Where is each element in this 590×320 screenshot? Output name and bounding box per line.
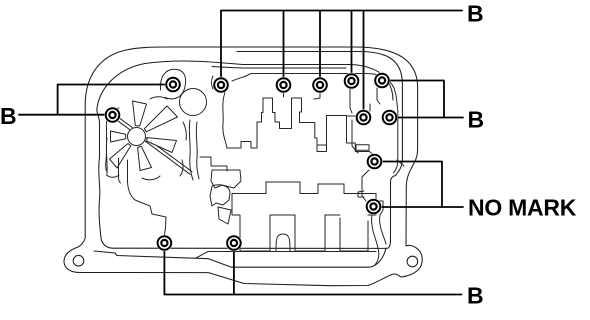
stub below bolt7	[377, 88, 380, 104]
middle band bottom meander	[232, 182, 383, 215]
fan blade W	[111, 131, 126, 142]
castle upper outline	[227, 98, 374, 155]
bolt b2	[165, 76, 181, 92]
below bolt11 wavy 2	[380, 215, 386, 244]
bolt3 pocket arc	[212, 76, 214, 89]
link bolt8 to wall	[369, 104, 371, 111]
castle small hanging box	[317, 145, 369, 152]
fan blade N	[133, 101, 147, 126]
bolt b12	[156, 235, 172, 251]
leader bottom B	[164, 243, 461, 295]
pan outer outline	[64, 47, 422, 286]
bottom-left ear hole	[73, 255, 84, 266]
bolt b13	[226, 235, 242, 251]
bolt b11	[365, 198, 381, 214]
pan inner bottom line	[94, 248, 386, 267]
big circle	[180, 89, 207, 116]
staircase to bolt12	[128, 182, 167, 235]
bolts	[104, 72, 397, 251]
leader top B	[221, 11, 462, 118]
bolt b6	[343, 73, 359, 89]
lower teeth bottom line	[196, 252, 376, 259]
fan blade NE	[144, 106, 177, 132]
leader NO MARK	[374, 162, 464, 208]
stub below bolt6	[350, 88, 352, 113]
lever rod	[112, 114, 192, 175]
channel right of fan pocket	[189, 120, 199, 180]
below bolt11 wavy 1	[372, 215, 379, 266]
middle band flag blob 2	[210, 185, 230, 206]
band bottom to lower teeth outline	[232, 194, 368, 252]
castle: left wavy channel below bolt3	[223, 92, 227, 148]
bolt b4	[275, 77, 291, 93]
bolt b10	[366, 153, 382, 169]
bolt b3	[213, 77, 229, 93]
fan hub	[128, 128, 146, 146]
fan blade SW	[110, 144, 131, 169]
bolt b8	[355, 109, 371, 125]
middle band triangle	[218, 207, 231, 224]
fan pocket boundary	[106, 97, 187, 180]
bolt b1	[104, 107, 120, 123]
svg-text:NO MARK: NO MARK	[468, 194, 577, 220]
left channel wavy 2	[106, 138, 127, 183]
stub below bolt4	[283, 92, 285, 97]
middle band flag blob 1	[211, 170, 241, 188]
svg-text:B: B	[467, 282, 484, 308]
stub below bolt5	[314, 92, 320, 99]
pan inner flange left	[97, 61, 396, 248]
middle band left steps	[200, 157, 227, 171]
fan blade E	[147, 138, 177, 153]
pan inner flange line top/right	[212, 65, 393, 101]
svg-text:B: B	[468, 106, 485, 132]
right channel below bolt10	[362, 170, 369, 201]
svg-text:B: B	[0, 103, 17, 129]
interior wall top line	[232, 74, 398, 174]
leader right B	[382, 81, 463, 118]
bolt b9	[381, 109, 397, 125]
leader left B	[19, 85, 173, 115]
bolt b7	[374, 72, 390, 88]
right wall lower step	[397, 160, 404, 166]
middle band inner steps	[270, 214, 376, 216]
bolt2 pocket	[160, 69, 185, 99]
bolt11 left notch	[358, 191, 364, 197]
bottom-right ear hole	[407, 256, 418, 267]
pan outer second top line	[237, 52, 402, 176]
fan blade S	[138, 146, 152, 170]
right channel zigzag upper	[352, 120, 358, 153]
bolt b5	[312, 77, 328, 93]
svg-text:B: B	[467, 1, 484, 27]
